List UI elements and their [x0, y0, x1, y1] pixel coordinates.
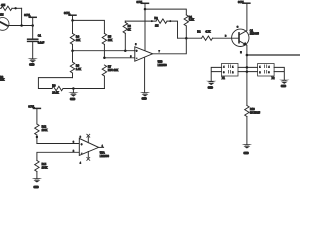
capacitor C1	[28, 26, 38, 59]
svg-text:LM2903: LM2903	[158, 64, 168, 67]
resistor R2 (4.7K base)	[202, 36, 239, 40]
svg-text:C: C	[237, 26, 239, 28]
svg-text:X2: X2	[272, 77, 276, 80]
junction node	[20, 24, 23, 27]
svg-text:LM2903: LM2903	[100, 155, 110, 158]
wire: V+ rail to R1	[145, 9, 186, 15]
ground (op-amp V-)	[140, 92, 150, 96]
resistor R4	[70, 20, 74, 50]
ground (R10)	[242, 144, 252, 148]
resistor R6	[70, 51, 74, 78]
wire: R14 to IN-	[37, 152, 79, 160]
no-connect marks	[87, 134, 90, 137]
wire: R5/R7 node to op-amp IN-	[104, 57, 134, 59]
svg-text:5: 5	[135, 44, 137, 46]
svg-text:4: 4	[80, 162, 82, 164]
wire: R6 bottom loop	[38, 78, 72, 89]
svg-text:22K: 22K	[0, 79, 5, 82]
svg-text:10K: 10K	[108, 39, 113, 42]
svg-text:GND: GND	[281, 86, 286, 88]
svg-text:GND: GND	[29, 65, 34, 67]
output pin U2A	[99, 146, 104, 148]
svg-text:X1: X1	[222, 77, 226, 80]
svg-text:10K: 10K	[76, 39, 81, 42]
svg-text:1K: 1K	[128, 29, 131, 32]
op-amp U2A	[79, 137, 98, 157]
wire: output node	[178, 37, 202, 39]
resistor R1	[184, 15, 188, 38]
wires: X1 to X2	[238, 67, 258, 71]
wire: mid rail to op-amp IN+	[73, 50, 135, 52]
svg-text:NTC 10K: NTC 10K	[108, 69, 119, 72]
svg-text:GND: GND	[34, 187, 39, 189]
svg-text:3CYL: 3CYL	[24, 14, 31, 17]
wire: sensor output	[8, 25, 33, 27]
svg-text:3CYL: 3CYL	[64, 12, 71, 15]
svg-text:0.1uF: 0.1uF	[38, 42, 45, 45]
svg-text:100K: 100K	[42, 167, 48, 170]
wire: R12 to IN+	[37, 143, 79, 145]
svg-text:GND: GND	[142, 99, 147, 101]
svg-text:100K: 100K	[42, 129, 48, 132]
svg-text:405: 405	[1, 4, 6, 7]
resistor R8 (top-left, horizontal)	[0, 6, 22, 10]
ground (X2)	[279, 80, 289, 84]
svg-text:MON625: MON625	[250, 111, 261, 114]
jumper X2	[258, 64, 275, 77]
resistor R14	[35, 161, 39, 179]
svg-text:3CYL: 3CYL	[238, 1, 245, 4]
svg-text:B: B	[225, 36, 227, 38]
svg-text:1.5K: 1.5K	[76, 68, 81, 71]
ground (R14)	[32, 178, 42, 182]
svg-text:R9: R9	[52, 84, 56, 87]
wire: resistor to sensor node	[21, 8, 23, 25]
resistor R3	[156, 19, 178, 38]
svg-text:GND: GND	[70, 99, 75, 101]
svg-text:3CYL: 3CYL	[137, 1, 144, 4]
svg-text:GND: GND	[244, 153, 249, 155]
svg-text:8: 8	[80, 137, 82, 139]
supply flag 3CYL (collector)	[243, 2, 250, 4]
net flag 3CYL (sensor node)	[29, 17, 36, 25]
svg-text:3CYL: 3CYL	[28, 105, 35, 108]
wire: bridge top rail	[73, 20, 105, 33]
transistor Q1 (NPN)	[232, 4, 249, 55]
wires: X1 left pins to ground	[211, 67, 221, 81]
resistor R10	[245, 106, 249, 145]
svg-text:E: E	[240, 52, 242, 54]
svg-text:1M: 1M	[155, 24, 158, 27]
junction: ground tap	[72, 87, 75, 90]
svg-text:GND: GND	[208, 87, 213, 89]
resistor R7 (NTC)	[102, 65, 106, 89]
ground (C1)	[28, 58, 38, 62]
wire: emitter output	[247, 54, 300, 56]
svg-text:C1: C1	[38, 35, 42, 38]
supply flag 3CYL (R12)	[33, 108, 40, 124]
svg-text:26.1K: 26.1K	[52, 92, 59, 95]
svg-text:1M: 1M	[0, 14, 3, 17]
svg-text:4.7K: 4.7K	[205, 30, 210, 33]
supply flag 3CYL (bridge top)	[69, 15, 76, 20]
wire: emitter to network	[246, 55, 248, 106]
op-amp U2B	[135, 47, 153, 93]
jumper X1	[222, 64, 239, 77]
ground (X1)	[206, 81, 216, 85]
resistor R12	[35, 124, 39, 144]
sensor G1 (circle, cut at left edge)	[0, 18, 9, 31]
svg-text:R2: R2	[197, 30, 201, 33]
svg-text:7: 7	[159, 51, 161, 53]
resistor R9	[52, 86, 104, 90]
svg-text:5.1K: 5.1K	[189, 19, 194, 22]
wire: feedback net	[125, 20, 156, 22]
resistor R5	[102, 33, 106, 57]
supply flag 3CYL (op-amp V+)	[142, 3, 149, 50]
junction dot on sensor-resistor wire	[14, 7, 16, 9]
svg-text:2SD965: 2SD965	[250, 33, 260, 36]
wire: output riser	[153, 38, 187, 54]
wires: X2 right pins to ground	[274, 67, 284, 79]
resistor R2 (1K)	[123, 21, 127, 51]
ground (bridge)	[68, 89, 78, 97]
